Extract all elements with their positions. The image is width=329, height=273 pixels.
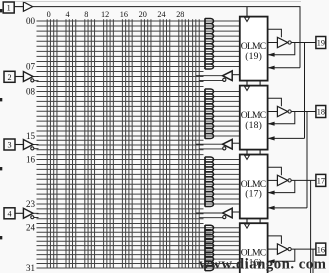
svg-text:3: 3 bbox=[7, 141, 11, 150]
wire: output to pin 19 bbox=[291, 42, 316, 44]
svg-text:16: 16 bbox=[317, 245, 325, 254]
clock input triangle OLMC 19 bbox=[245, 17, 250, 21]
wire: feedback drop from pin 16 net bbox=[312, 249, 314, 273]
wire: feedback drop from pin 19 net bbox=[304, 43, 306, 139]
svg-text:8: 8 bbox=[84, 10, 88, 19]
svg-text:4: 4 bbox=[65, 10, 69, 19]
wire: feedback arrow 1 into OLMC 16 bbox=[269, 249, 295, 261]
OLMC U4 (16) block bbox=[240, 223, 268, 273]
scan marks on left edge bbox=[0, 9, 2, 12]
wire: feedback drop from pin 17 net bbox=[310, 180, 312, 273]
svg-text:(19): (19) bbox=[245, 51, 262, 62]
feedback buffer section 3 (left-pointing, with complement bubble) bbox=[223, 208, 233, 218]
tri-state output buffer for pin 17 bbox=[268, 179, 278, 181]
AND gate array, product terms group 3 bbox=[204, 157, 206, 207]
svg-text:www.diangon. com: www.diangon. com bbox=[199, 257, 327, 273]
wire: output enable loop OLMC 18 bbox=[268, 98, 282, 106]
wire: feedback arrow 1 into OLMC 17 bbox=[269, 180, 295, 192]
wire: feedback arrow 2 into OLMC 19 bbox=[269, 67, 300, 69]
OLMC U3 (17) block bbox=[240, 155, 268, 219]
wire: output enable loop OLMC 16 bbox=[268, 236, 282, 244]
wire: output to pin 16 bbox=[291, 248, 316, 250]
svg-text:20: 20 bbox=[139, 10, 147, 19]
wire: grid horizontal product-term rows bbox=[37, 21, 240, 268]
pin 18 output box bbox=[316, 106, 326, 118]
tri-state output buffer for pin 19 bbox=[268, 42, 278, 44]
clock input triangle OLMC 17 bbox=[245, 155, 250, 159]
wire: feedback arrow 2 into OLMC 18 bbox=[269, 137, 305, 139]
svg-text:16: 16 bbox=[26, 154, 36, 164]
pin 19 output box bbox=[316, 37, 326, 49]
wire: feedback arrow 1 into OLMC 18 bbox=[269, 112, 295, 124]
AND gate array, product terms group 4 bbox=[204, 225, 206, 271]
tri-state output buffer for pin 18 bbox=[268, 111, 278, 113]
tri-state output buffer for pin 16 bbox=[268, 248, 278, 250]
pin 1 input box bbox=[3, 2, 14, 13]
wire: output to pin 18 bbox=[291, 111, 316, 113]
wire: feedback drop from pin 18 net bbox=[306, 112, 308, 208]
wire: cascade clock between OLMC bbox=[246, 81, 248, 87]
buffer pin4 input (true and complement outputs) bbox=[15, 212, 23, 214]
svg-text:(18): (18) bbox=[245, 120, 262, 131]
clock input triangle OLMC 18 bbox=[245, 86, 250, 90]
svg-text:24: 24 bbox=[26, 223, 36, 233]
svg-text:07: 07 bbox=[26, 61, 36, 71]
wire: output enable loop OLMC 17 bbox=[268, 167, 282, 175]
wire: clock stem into OLMC 19 bbox=[246, 7, 248, 17]
feedback buffer section 1 (left-pointing, with complement bubble) bbox=[223, 71, 233, 81]
svg-text:0: 0 bbox=[47, 10, 51, 19]
buffer pin1 input bbox=[14, 6, 23, 8]
AND gate array, product terms group 2 bbox=[204, 89, 206, 139]
wire: cascade clock between OLMC bbox=[246, 150, 248, 156]
svg-text:31: 31 bbox=[26, 263, 35, 273]
buffer pin2 input (true and complement outputs) bbox=[15, 76, 23, 78]
wire: feedback arrow 2 into OLMC 17 bbox=[269, 207, 307, 209]
wire: cascade clock between OLMC bbox=[246, 219, 248, 225]
svg-text:00: 00 bbox=[26, 16, 36, 26]
pin 16 output box bbox=[316, 243, 326, 255]
svg-text:17: 17 bbox=[317, 177, 325, 186]
pin 2 input box bbox=[4, 71, 15, 82]
pin 3 input box bbox=[4, 139, 15, 150]
svg-text:08: 08 bbox=[26, 86, 36, 96]
svg-text:23: 23 bbox=[26, 199, 36, 209]
clock input triangle OLMC 16 bbox=[245, 224, 250, 228]
pin 17 output box bbox=[316, 174, 326, 186]
wire: grid vertical input columns bbox=[47, 19, 188, 268]
OLMC U1 (19) block bbox=[240, 17, 268, 81]
buffer pin3 input (true and complement outputs) bbox=[15, 144, 23, 146]
svg-text:1: 1 bbox=[7, 4, 11, 13]
node: product term row numbers bbox=[26, 16, 36, 273]
scan artifact line top edge bbox=[15, 1, 301, 3]
AND gate array, product terms group 1 bbox=[204, 18, 206, 69]
svg-text:12: 12 bbox=[101, 10, 109, 19]
svg-text:28: 28 bbox=[176, 10, 184, 19]
svg-text:(17): (17) bbox=[245, 189, 262, 200]
feedback buffer section 2 (left-pointing, with complement bubble) bbox=[223, 139, 233, 149]
pin 4 input box bbox=[4, 208, 15, 219]
node: column numbers 0..28 bbox=[47, 10, 185, 19]
svg-text:24: 24 bbox=[157, 10, 165, 19]
svg-text:2: 2 bbox=[7, 73, 11, 82]
wire: feedback arrow 1 into OLMC 19 bbox=[269, 43, 295, 55]
OLMC U2 (18) block bbox=[240, 86, 268, 150]
wire: feedback vertical columns bbox=[193, 19, 200, 268]
svg-text:19: 19 bbox=[317, 39, 325, 48]
svg-text:4: 4 bbox=[7, 209, 11, 218]
wire: clock line from pin1 to OLMC column bbox=[33, 7, 300, 68]
wire: output to pin 17 bbox=[291, 179, 316, 181]
wire: output enable loop OLMC 19 bbox=[268, 29, 282, 37]
svg-text:18: 18 bbox=[317, 108, 325, 117]
svg-text:15: 15 bbox=[26, 131, 36, 141]
svg-text:16: 16 bbox=[120, 10, 128, 19]
